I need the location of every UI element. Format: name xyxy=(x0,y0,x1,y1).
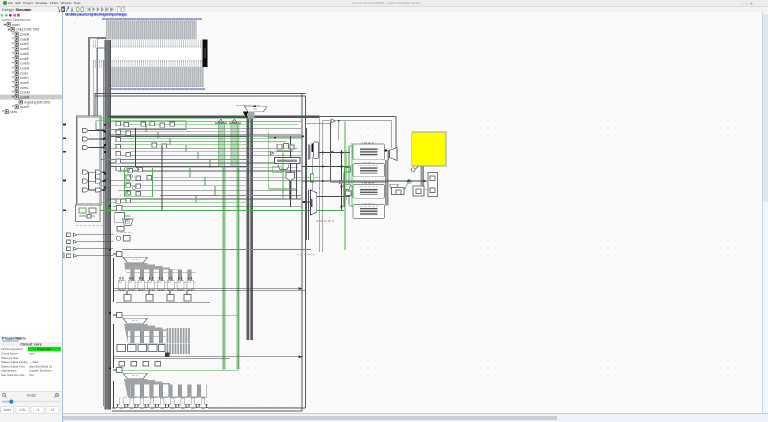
subcircuit cluster S1 xyxy=(76,205,107,226)
svg-text:main: main xyxy=(12,23,20,27)
svg-text:Circuit: core: Circuit: core xyxy=(20,342,41,346)
label gray under cluster xyxy=(315,221,334,222)
mux M2 lower xyxy=(310,190,317,215)
wire row2 block1 xyxy=(116,291,210,303)
svg-text:coreC: coreC xyxy=(20,42,30,46)
svg-text:core: core xyxy=(29,352,35,356)
pin fan block2 xyxy=(166,344,190,354)
device row block2 xyxy=(117,345,165,352)
svg-text:Active Simulations: Active Simulations xyxy=(2,18,31,22)
sub row block2 xyxy=(119,362,161,367)
label dashes below loop xyxy=(297,254,315,255)
svg-text:coreF: coreF xyxy=(20,57,29,61)
svg-text:coreM: coreM xyxy=(20,91,30,95)
wire green horizontals group xyxy=(86,119,344,371)
dark blob block2 xyxy=(165,352,170,357)
wires frame to cluster xyxy=(302,153,350,197)
wire bus A vertical xyxy=(89,60,97,116)
svg-text:Supported: Supported xyxy=(37,347,52,351)
wire dark band y136 xyxy=(108,135,303,137)
svg-text:Yes: Yes xyxy=(29,373,34,377)
svg-text:Use fixed-box size: Use fixed-box size xyxy=(1,373,25,377)
svg-text:coreJ: coreJ xyxy=(20,76,29,80)
RAM chip U3 xyxy=(353,162,385,177)
wire bus right of chips xyxy=(385,150,389,205)
svg-text:Simulation paused or signals c: Simulation paused or signals changed at … xyxy=(65,12,127,16)
svg-text:coreO: coreO xyxy=(20,105,30,109)
frame sub-circuit boundary top xyxy=(95,93,306,96)
latch L1 xyxy=(392,173,438,197)
svg-text:×0.63: ×0.63 xyxy=(26,393,35,397)
wire thick vertical C xyxy=(247,118,253,340)
wire dark vertical left of chips xyxy=(341,150,343,210)
gate cluster green bits xyxy=(269,132,296,200)
wire thick horizontal main xyxy=(108,115,320,117)
wire vertical x162 xyxy=(162,136,291,210)
wire vertical x330 xyxy=(330,122,350,207)
gate row y205-240 right of bus xyxy=(115,206,133,232)
svg-text:coreN: coreN xyxy=(20,96,30,100)
svg-text:coreI: coreI xyxy=(20,71,28,75)
LED matrix (yellow) xyxy=(412,132,446,166)
node bus labels bottom xyxy=(107,88,205,90)
svg-text:coreD: coreD xyxy=(20,47,30,51)
wire green vertical x344.6 xyxy=(283,122,345,251)
wire bus B vertical (main trunk) xyxy=(104,40,111,410)
wire dark pair y136 xyxy=(263,135,304,199)
wire y202 + junction xyxy=(302,151,334,203)
decoder DC2 xyxy=(123,318,148,324)
svg-text:×1¾: ×1¾ xyxy=(19,408,26,412)
wire vertical x306.5 xyxy=(307,128,313,240)
wire y123 frame to loop xyxy=(305,122,330,124)
wire fan DC1 xyxy=(124,263,196,283)
RAM chip U2 xyxy=(353,142,385,160)
mux sliver dark xyxy=(308,144,314,161)
decoder DC1 xyxy=(123,257,148,263)
wire loop inner xyxy=(323,120,392,252)
frame2 bottom y166.6 xyxy=(111,166,247,167)
input pin DC2 xyxy=(113,313,122,318)
wire green short verticals mesh xyxy=(146,124,215,203)
frame green box top cluster xyxy=(96,121,186,197)
svg-text:÷1: ÷1 xyxy=(36,408,40,412)
wire dark y180.9 right xyxy=(386,180,427,182)
svg-text:coreH: coreH xyxy=(20,67,30,71)
flipflop row block1 xyxy=(116,277,196,291)
buffer pins left column group1 xyxy=(83,128,89,149)
register R1 xyxy=(314,142,319,159)
wire bundle comb bottom xyxy=(111,67,204,87)
gate under LED matrix xyxy=(411,166,418,171)
frame left edge stub xyxy=(94,93,96,116)
frame green group box left xyxy=(77,116,102,205)
svg-text:coreA: coreA xyxy=(20,33,30,37)
wire loop outer xyxy=(320,117,396,252)
svg-text:slow: slow xyxy=(10,110,17,114)
gate cluster rows top xyxy=(116,122,175,204)
input pin DC1 xyxy=(113,252,122,257)
frame right edge xyxy=(302,93,306,411)
comb slots block2 xyxy=(128,328,190,344)
mux MX1 xyxy=(236,105,267,118)
wire thin verticals under left box xyxy=(89,172,96,190)
wire green trunk in bus xyxy=(102,60,105,406)
wire dark horizontals group xyxy=(108,121,301,206)
flipflop row block3 xyxy=(116,398,208,409)
wire dark horizontal under chips xyxy=(330,181,386,183)
input pins lower rows xyxy=(67,233,77,258)
svg-text:registry(300:200): registry(300:200) xyxy=(24,100,50,104)
decoder DC3 xyxy=(123,373,148,379)
wire bundle comb top xyxy=(106,20,197,39)
flipflop row2 block1 xyxy=(124,295,191,301)
wire green bundle V2 xyxy=(231,124,240,369)
svg-text:coreK: coreK xyxy=(20,81,30,85)
gate cluster right of frame xyxy=(271,144,301,181)
wire long block1 xyxy=(114,258,306,302)
pin ticks upper xyxy=(93,40,201,48)
svg-text:Auto: Auto xyxy=(4,408,11,412)
green component canvas edge xyxy=(60,253,64,257)
wire long block3 xyxy=(114,381,302,408)
wire stub below LED matrix xyxy=(421,166,424,193)
wire thick spur to loop xyxy=(305,115,319,117)
subcircuit chip U1 body xyxy=(99,40,202,88)
mux M3 right of chip1 xyxy=(385,148,397,161)
wire green bundle V1 xyxy=(218,124,225,369)
RAM chip U5 xyxy=(353,203,385,219)
svg-text:coreB: coreB xyxy=(20,37,30,41)
wire fan DC2 xyxy=(124,324,189,344)
wire long block2 xyxy=(114,324,303,368)
gate dots green cluster xyxy=(126,168,135,194)
buffer pins left column group2 xyxy=(83,170,102,192)
wire green links mini cluster xyxy=(404,168,428,191)
frame bottom edge xyxy=(112,408,305,411)
decoder D4 xyxy=(390,184,398,189)
wire bus elbow top-left xyxy=(89,38,106,87)
wire green chip column xyxy=(345,143,354,207)
wire fan DC3 xyxy=(124,379,206,399)
junction dots bus B xyxy=(104,124,111,369)
svg-text:State: State xyxy=(17,336,26,341)
wire stubs left column xyxy=(77,130,113,256)
svg-text:×2: ×2 xyxy=(51,408,55,412)
small shapes left mini cluster xyxy=(339,180,351,195)
comb slots block3 xyxy=(130,384,207,396)
svg-text:coreE: coreE xyxy=(20,52,30,56)
pin ticks lower xyxy=(93,60,203,68)
corner box at elbow xyxy=(97,38,106,47)
clock gate CK1 xyxy=(117,235,130,241)
label chip black tag xyxy=(203,40,208,68)
label lines gate row xyxy=(118,232,133,235)
svg-text:chip(1995:750): chip(1995:750) xyxy=(16,28,39,32)
gate cluster inner bar xyxy=(277,160,297,162)
wire vertical x135 xyxy=(136,128,140,170)
green bits gate row xyxy=(124,216,130,223)
pin stubs canvas left edge xyxy=(63,124,66,212)
probe pin triangles xyxy=(215,119,241,124)
input pin DC3 xyxy=(113,368,122,373)
svg-text:coreG: coreG xyxy=(20,62,30,66)
buffer B1 on loop xyxy=(331,119,336,123)
svg-text:coreL: coreL xyxy=(20,86,29,90)
RAM chip U4 xyxy=(353,183,385,199)
register green GX xyxy=(311,174,314,182)
node bus labels top xyxy=(102,18,202,20)
comb slots block1 xyxy=(126,269,196,282)
